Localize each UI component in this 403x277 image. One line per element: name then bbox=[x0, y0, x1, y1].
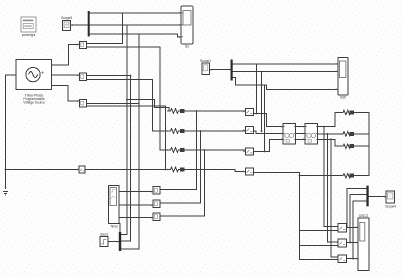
ground symbol bbox=[3, 187, 8, 195]
wire signal builder out3 to VM3 bbox=[119, 217, 153, 219]
svg-text:Voltage Source: Voltage Source bbox=[23, 101, 45, 105]
current measurement CM3 bbox=[77, 100, 86, 107]
breaker row3 bbox=[243, 148, 253, 155]
RLC branch row2 right bbox=[342, 132, 357, 136]
RLC branch row3 left bbox=[169, 148, 186, 152]
RLC branch row4 left bbox=[169, 167, 186, 171]
wire signal builder out2 to VM2 bbox=[119, 204, 153, 206]
wire row2 breaker to transformer X1 port2 bbox=[253, 131, 283, 133]
wire X2 rail a to right RLC row1 bbox=[318, 113, 369, 127]
load block LB3 bbox=[338, 255, 346, 263]
wire source port B to CM2 bbox=[52, 74, 79, 76]
wire Mux3 input 1 bbox=[347, 189, 366, 228]
wire source neutral to ground bbox=[6, 75, 17, 188]
current measurement CM2 bbox=[77, 73, 86, 80]
wire arrowheads bbox=[77, 12, 386, 218]
load block LB2 bbox=[338, 239, 346, 247]
wire neutral rail across bottom left bbox=[6, 169, 170, 171]
RLC branch row2 left bbox=[169, 129, 186, 133]
scope Scope5 bbox=[61, 16, 73, 30]
wire load drop a to LB1 bbox=[324, 127, 338, 227]
wire phase A feeder from CM1 down to row3 bbox=[87, 47, 170, 150]
wire VM3 up to row3 bbox=[160, 150, 205, 216]
breaker row4 neutral bbox=[243, 168, 253, 175]
subsystem DISC bbox=[356, 214, 369, 271]
svg-text:Timer: Timer bbox=[110, 225, 119, 229]
wire X2 rail c to right RLC row3 bbox=[318, 139, 369, 146]
scope Scope1 bbox=[200, 59, 212, 74]
wire row2 rail RLC to breaker bbox=[186, 130, 246, 132]
wire measurement tap row1 up to rail A2 bbox=[256, 64, 258, 114]
wire rail C2 from Mux2 to B25 with jogs bbox=[233, 77, 338, 89]
powergui block bbox=[21, 17, 36, 37]
wire neutral rail right of RLC4 to bus node bbox=[186, 170, 300, 173]
wire Step1 to bottom mux bbox=[108, 241, 119, 243]
wire net Vb rail through Mux1 to Scope5 and B1 port2 bbox=[71, 25, 182, 234]
mux Mux2 bbox=[231, 60, 233, 81]
wire net Vc rail to B1 port3 with jog bbox=[87, 34, 182, 249]
measurement VM1 bbox=[153, 187, 160, 194]
measurement VM2 bbox=[153, 200, 160, 208]
wire row1 breaker to transformer X1 port1 bbox=[253, 114, 283, 127]
current measurement CM1 bbox=[77, 41, 86, 48]
wire source port C to CM3 bbox=[52, 86, 79, 101]
wire load drop c to LB3 bbox=[331, 139, 338, 257]
wire Mux2 output to Scope1 bbox=[209, 69, 230, 71]
wire row3 rail RLC to breaker bbox=[186, 149, 246, 151]
scope Scope4 bbox=[384, 191, 396, 208]
RLC branch row1 left bbox=[169, 109, 186, 113]
wire source port A to CM1 bbox=[52, 45, 79, 66]
measurement VM3 bbox=[153, 213, 160, 221]
wire SB bottom to mux top bbox=[119, 224, 121, 233]
svg-text:Scope4: Scope4 bbox=[385, 205, 396, 209]
svg-text:B25: B25 bbox=[340, 96, 346, 100]
wire row1 rail RLC to breaker bbox=[186, 110, 246, 112]
wire load block outputs to DISC bbox=[347, 227, 359, 258]
wire net Va measurement rail to B1 port1 bbox=[87, 13, 182, 44]
wire right RLC common vertical bbox=[357, 113, 370, 176]
neutral series block bbox=[79, 166, 85, 173]
RLC branch row1 right bbox=[342, 110, 357, 114]
wire Mux3 input 3 bbox=[353, 201, 366, 259]
wire Mux3 output to Scope4 bbox=[369, 196, 386, 198]
wire rail B2 from Mux2 to B25 bbox=[233, 70, 338, 72]
svg-text:Scope1: Scope1 bbox=[200, 59, 211, 63]
subsystem B1 measurement bbox=[181, 6, 193, 49]
wire row3 breaker to transformer X1 port3 bbox=[253, 139, 283, 151]
wire X2 rail b to right RLC row2 bbox=[318, 133, 369, 135]
wire rail A2 from Mux2 to B25 bbox=[233, 63, 338, 65]
load block LB1 bbox=[338, 224, 346, 232]
wire bottom mux input stubs bbox=[87, 76, 139, 249]
breaker row2 bbox=[243, 126, 253, 133]
RLC branch row4 right bbox=[342, 174, 357, 178]
mux Mux3 bbox=[366, 186, 368, 207]
wire VM1 up to row1 bbox=[160, 111, 197, 190]
RLC branch row3 right bbox=[342, 144, 357, 148]
wire measurement tap row3 up to rail C2 bbox=[264, 85, 266, 152]
wire phase B feeder from CM2 down to row2 bbox=[87, 79, 170, 131]
subsystem B25 measurement bbox=[336, 57, 348, 99]
wire measurement tap row2 up to rail B2 bbox=[261, 71, 263, 131]
breaker row1 bbox=[243, 108, 253, 115]
svg-text:B1: B1 bbox=[185, 45, 189, 49]
wire transformer link rails X1 to X2 bbox=[296, 127, 305, 140]
svg-text:powergui: powergui bbox=[22, 33, 36, 37]
wire phase C feeder from CM3 to neutral rail bbox=[87, 106, 166, 170]
signal builder block bbox=[109, 186, 120, 229]
wire load drop b to LB2 bbox=[328, 134, 339, 242]
wire Mux3 input 2 bbox=[350, 194, 366, 242]
wire signal builder out1 to VM1 bbox=[119, 191, 153, 193]
mux Mux1 bbox=[88, 11, 90, 37]
source Three-Phase Programmable Voltage Source bbox=[16, 59, 52, 104]
wire VM2 up to row2 bbox=[160, 131, 201, 203]
wire neutral bus vertical feeding load cluster bbox=[300, 173, 343, 260]
transformer X2 bbox=[305, 124, 318, 144]
transformer X1 bbox=[283, 124, 296, 144]
step source Step1 bbox=[100, 233, 119, 247]
svg-text:Scope5: Scope5 bbox=[61, 16, 72, 20]
mux Mux4 bottom bbox=[119, 232, 121, 251]
